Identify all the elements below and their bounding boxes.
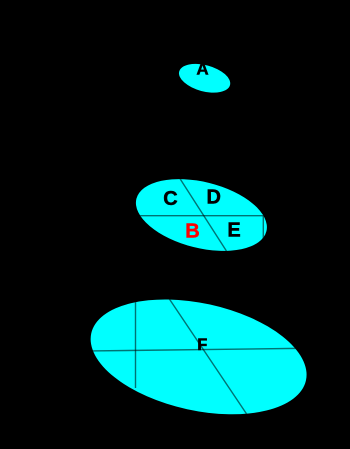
wire: diagonal chord of middle ellipse [177,174,229,255]
svg-text:C: C [163,188,177,210]
svg-text:B: B [185,220,199,242]
svg-text:A: A [196,60,208,79]
wire: short vertical chord at right tip [262,216,264,240]
svg-text:F: F [197,336,207,354]
svg-text:E: E [227,220,240,242]
wire: vertical chord of big ellipse [135,295,137,388]
ellipse F (large bottom) [80,281,318,433]
svg-text:D: D [206,187,220,209]
ellipse CDBE (middle) [128,167,274,263]
wire: horizontal chord of middle ellipse [130,215,270,217]
wire: diagonal chord of big ellipse [166,294,252,422]
ellipse A (small top) [176,59,234,98]
wire: horizontal chord of big ellipse [88,348,310,351]
